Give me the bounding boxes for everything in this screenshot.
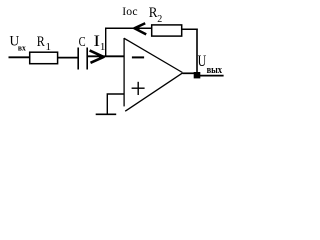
capacitor C left plate — [77, 48, 79, 70]
capacitor C right plate — [86, 48, 88, 70]
svg-text:U: U — [198, 52, 207, 70]
ground — [96, 113, 117, 115]
resistor R2 — [152, 25, 182, 36]
op-amp U1 left edge — [123, 38, 125, 106]
junction node dot — [194, 72, 201, 78]
op-amp inverting input minus sign — [132, 56, 144, 58]
svg-text:C: C — [79, 33, 86, 49]
wire: op-amp output to node — [182, 72, 194, 74]
wire: R1 to C — [58, 57, 79, 59]
wire: feedback vertical at inverting node — [105, 28, 107, 57]
wire: input from Uvx to R1 — [9, 56, 31, 58]
wire: noninverting input to ground — [107, 94, 124, 114]
op-amp noninverting input plus sign horizontal — [132, 87, 145, 89]
svg-text:2: 2 — [157, 14, 162, 25]
current arrow Ioc — [134, 23, 146, 34]
wire: R2 to output node corner — [182, 28, 198, 30]
svg-text:R: R — [37, 33, 46, 50]
svg-text:1: 1 — [46, 41, 52, 53]
resistor R1 — [30, 52, 58, 64]
svg-text:вх: вх — [18, 43, 26, 52]
svg-text:Iос: Iос — [122, 5, 137, 18]
wire: feedback top horizontal — [105, 27, 152, 29]
wire: C to op-amp inverting input — [88, 55, 124, 57]
wire: output node to Uvyx — [200, 75, 224, 77]
op-amp U1 bottom edge — [125, 73, 182, 111]
op-amp U1 top edge — [124, 38, 182, 72]
current arrow I1 — [90, 50, 104, 62]
svg-text:вых: вых — [207, 65, 223, 76]
svg-text:1: 1 — [100, 41, 106, 53]
op-amp noninverting input plus sign vertical — [137, 82, 139, 95]
wire: feedback right vertical — [196, 29, 198, 74]
